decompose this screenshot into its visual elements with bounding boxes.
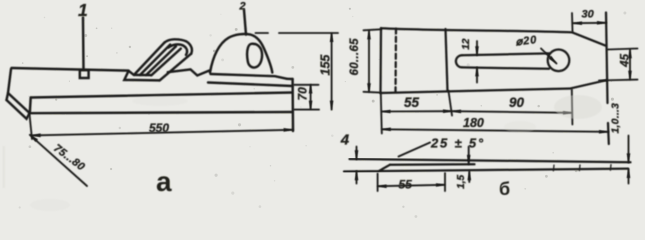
svg-text:б: б bbox=[499, 179, 510, 199]
wire right end edge bbox=[291, 79, 294, 131]
dim 45 extensions bbox=[599, 49, 638, 81]
texts fig B side bbox=[340, 132, 510, 200]
dim 10-3 lines bbox=[628, 136, 630, 184]
svg-text:55: 55 bbox=[399, 178, 413, 192]
wire blade taper top bbox=[572, 32, 606, 45]
wire blade bottom edge bbox=[381, 89, 572, 94]
dim 30 line bbox=[573, 22, 606, 24]
dim 55 side line bbox=[378, 185, 445, 186]
wire wedge top cap bbox=[165, 39, 192, 53]
wire left chamfer upper bbox=[8, 93, 30, 113]
dim 550 extension left bbox=[30, 115, 33, 140]
tick marks on bottom edge bbox=[553, 165, 611, 171]
svg-text:60...65: 60...65 bbox=[349, 38, 361, 76]
side view bottom edge bbox=[344, 169, 628, 172]
svg-text:25 ± 5°: 25 ± 5° bbox=[430, 136, 485, 151]
wire bed line behind wedge bbox=[168, 69, 210, 75]
svg-text:12: 12 bbox=[461, 38, 472, 50]
wire front face left edge bbox=[29, 98, 32, 114]
wire blade left edge bbox=[379, 28, 382, 93]
dim 55 90 extensions bbox=[381, 90, 573, 134]
node mouth opening bbox=[124, 71, 159, 81]
wire plinth bottom edge bbox=[208, 83, 293, 87]
slot bottom edge bbox=[462, 67, 549, 68]
handle grip hole bbox=[247, 44, 262, 68]
arrows fig A bbox=[309, 85, 313, 94]
svg-text:2: 2 bbox=[239, 1, 246, 13]
dim 12 lines bbox=[476, 41, 478, 83]
wire blade right end bbox=[606, 13, 609, 145]
slot left cap bbox=[456, 55, 462, 67]
wire wedge inner line 2 bbox=[146, 46, 176, 75]
svg-text:55: 55 bbox=[404, 95, 420, 110]
part 1 square bbox=[80, 70, 89, 78]
wire wedge right edge bbox=[160, 54, 192, 81]
dim 45 line bbox=[629, 49, 631, 80]
dim 30 extension bbox=[571, 13, 574, 32]
wire front face top edge bbox=[31, 93, 292, 98]
scan noise patches bbox=[3, 95, 603, 211]
angle leader bbox=[399, 143, 431, 157]
dim 60-65 line bbox=[368, 30, 370, 92]
wire line at 55 bbox=[446, 29, 448, 91]
wire blade taper bottom bbox=[571, 80, 606, 88]
svg-text:70: 70 bbox=[296, 87, 310, 101]
svg-text:155: 155 bbox=[319, 54, 333, 76]
svg-text:30: 30 bbox=[582, 9, 595, 21]
svg-text:1,5: 1,5 bbox=[456, 174, 467, 188]
svg-text:4: 4 bbox=[340, 132, 350, 149]
part 2 leader bbox=[244, 10, 246, 35]
wire dashed line bbox=[394, 29, 397, 93]
svg-text:1,0...3: 1,0...3 bbox=[610, 103, 622, 134]
dim 90 line bbox=[452, 111, 572, 113]
svg-text:а: а bbox=[156, 166, 172, 197]
wire front face bottom edge bbox=[30, 112, 293, 113]
dim 70 line bbox=[310, 85, 312, 110]
wire wedge left edge bbox=[134, 43, 165, 75]
dim 55 side extensions bbox=[378, 173, 445, 191]
wire left end edge bbox=[7, 69, 12, 100]
dim 180 line bbox=[382, 129, 608, 132]
part 1 leader bbox=[82, 18, 85, 70]
wire top edge bbox=[12, 68, 129, 71]
dim 55 line bbox=[382, 110, 453, 112]
dim 155 extension top bbox=[256, 32, 339, 34]
dim 550 line bbox=[32, 130, 293, 136]
dim 60-65 extensions bbox=[364, 29, 382, 92]
svg-text:550: 550 bbox=[149, 121, 169, 135]
wire plinth top edge bbox=[211, 74, 288, 79]
dim 4 lines bbox=[356, 147, 358, 184]
side view top edge bbox=[350, 159, 631, 162]
dim 155 line bbox=[331, 33, 333, 110]
wire blade top edge bbox=[381, 28, 572, 32]
wire left chamfer lower bbox=[7, 100, 30, 119]
dim 75-80 diagonal line bbox=[30, 135, 87, 186]
side view weld line bbox=[390, 163, 475, 166]
texts fig A bbox=[51, 0, 332, 197]
svg-text:90: 90 bbox=[509, 95, 525, 110]
leader dia20 bbox=[541, 49, 557, 64]
dim 70 extension lines bbox=[294, 85, 319, 110]
wire rear top corner bbox=[287, 78, 293, 81]
svg-text:180: 180 bbox=[463, 116, 484, 130]
side view bevel bbox=[379, 165, 390, 172]
wire wedge inner line 1 bbox=[140, 45, 170, 75]
svg-text:45: 45 bbox=[620, 53, 632, 67]
handle outline bbox=[210, 34, 272, 73]
wire wedge inner line 3 bbox=[151, 49, 181, 76]
hole circle bbox=[548, 50, 570, 72]
dim 1,5 lines bbox=[468, 147, 471, 183]
slot top edge bbox=[462, 53, 550, 55]
arrows fig B side bbox=[355, 150, 359, 159]
arrows fig B top bbox=[367, 30, 371, 39]
svg-text:1: 1 bbox=[78, 0, 88, 20]
texts fig B top bbox=[349, 9, 632, 134]
wire wedge cap inner bbox=[168, 44, 187, 55]
